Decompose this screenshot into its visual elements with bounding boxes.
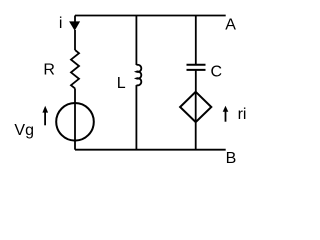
wire: vertical line through diamond <box>195 92 197 122</box>
wire: right branch segment from capacitor to diamond source <box>195 70 197 92</box>
resistor R zigzag <box>71 50 79 88</box>
svg-text:ri: ri <box>238 106 247 123</box>
wire: left branch segment between resistor and source circle <box>74 88 76 103</box>
dependent source diamond <box>180 92 211 122</box>
wire: left branch segment from circle to bottom rail <box>74 141 76 150</box>
wire: vertical line through source circle <box>74 103 76 141</box>
voltage source Vg circle <box>56 103 94 141</box>
wire: bottom rail to node B <box>75 149 226 151</box>
inductor L coil <box>136 65 141 86</box>
svg-text:R: R <box>43 62 55 79</box>
svg-text:i: i <box>59 15 63 32</box>
Vg reference arrow (upward) <box>42 106 48 126</box>
svg-text:B: B <box>226 150 237 167</box>
wire: middle branch top segment <box>135 16 137 66</box>
svg-text:C: C <box>211 63 223 80</box>
svg-text:A: A <box>225 16 236 33</box>
svg-text:Vg: Vg <box>14 122 34 139</box>
wire: right branch top segment down to capacitor <box>195 16 197 65</box>
current arrow i (downward filled arrowhead) <box>69 21 80 30</box>
wire: left branch top segment (top rail corner down to current arrow) <box>74 16 76 24</box>
wire: middle branch bottom segment <box>135 85 137 150</box>
svg-text:L: L <box>117 75 126 92</box>
wire: left branch segment between arrow and resistor <box>74 30 76 50</box>
capacitor C top plate <box>187 64 206 66</box>
wire: right branch segment from diamond to bottom rail <box>195 122 197 150</box>
wire: top rail from node i to node A <box>75 15 226 17</box>
capacitor C bottom plate <box>187 69 206 71</box>
ri reference arrow (upward) <box>223 106 229 122</box>
